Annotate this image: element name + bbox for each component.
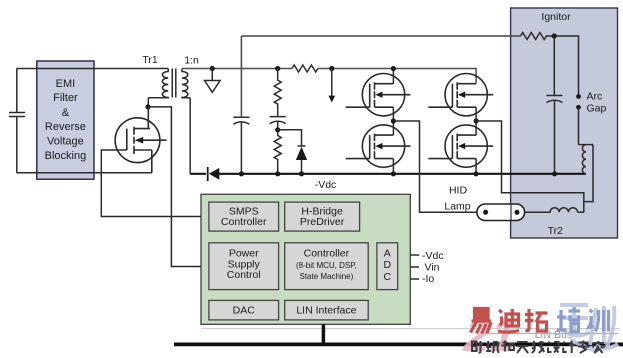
svg-text:Tr2: Tr2 xyxy=(548,225,564,237)
controller green block xyxy=(201,194,410,324)
svg-text:Blocking: Blocking xyxy=(45,150,87,162)
wire Tr1 secondary bottom down xyxy=(189,98,191,174)
transformer Tr2 secondary coil xyxy=(579,145,594,174)
svg-text:Lamp: Lamp xyxy=(444,201,470,213)
transformer Tr1 xyxy=(148,69,190,98)
watermark char Yi xyxy=(471,309,492,334)
wire ADC stubs xyxy=(410,255,419,279)
watermark small row dark characters xyxy=(472,341,605,354)
H-Bridge PreDriver block xyxy=(285,202,360,231)
node cap rail xyxy=(552,171,557,176)
svg-text:&: & xyxy=(62,107,70,119)
svg-text:Ignitor: Ignitor xyxy=(541,11,571,23)
capacitor input xyxy=(9,113,25,117)
SMPS Controller block xyxy=(209,202,279,231)
svg-text:Controller: Controller xyxy=(304,248,350,260)
watermark blue glyph echo xyxy=(560,305,618,352)
svg-text:-Vdc: -Vdc xyxy=(315,179,337,191)
watermark thin underline xyxy=(490,333,618,335)
svg-text:C: C xyxy=(384,271,392,283)
HID lamp xyxy=(444,184,524,220)
wire input bottom xyxy=(17,172,152,174)
mosfet Q3 top-right xyxy=(428,74,493,116)
watermark char Di xyxy=(498,309,519,332)
svg-text:DAC: DAC xyxy=(233,305,256,317)
wire Q1 gate to SMPS controller xyxy=(101,150,201,217)
svg-text:1:n: 1:n xyxy=(184,55,199,67)
wire autotransformer link xyxy=(584,145,593,202)
ground xyxy=(205,66,221,92)
current arrow xyxy=(328,66,335,103)
svg-text:(8-bit MCU, DSP,: (8-bit MCU, DSP, xyxy=(296,261,357,270)
mosfet Q4 bottom-left xyxy=(346,125,411,167)
LIN bus vertical xyxy=(322,324,326,344)
node divider bottom xyxy=(275,171,280,176)
svg-text:HID: HID xyxy=(449,184,468,196)
Ignitor block xyxy=(511,8,618,238)
wire ignitor top xyxy=(554,36,578,95)
svg-text:-Io: -Io xyxy=(422,273,434,285)
Controller (8-bit MCU, DSP, State Machine) block xyxy=(285,243,369,290)
arc gap xyxy=(576,91,606,145)
LIN bus line xyxy=(174,343,623,347)
wire top feed to ignitor xyxy=(241,36,520,116)
wire secondary top rail xyxy=(182,69,476,84)
resistor ignitor xyxy=(521,33,555,40)
svg-text:Gap: Gap xyxy=(587,103,607,115)
wire Tr1 primary bottom to drain junction xyxy=(147,98,149,107)
node divider top xyxy=(275,66,280,71)
wire input top xyxy=(17,68,169,70)
svg-text:Voltage: Voltage xyxy=(47,136,84,148)
Power Supply Control block xyxy=(209,243,279,290)
svg-text:Filter: Filter xyxy=(53,92,78,104)
svg-text:EMI: EMI xyxy=(56,78,76,90)
wire left node to lamp xyxy=(393,121,477,212)
resistor divider lower xyxy=(274,130,281,174)
svg-text:A: A xyxy=(384,248,391,260)
node ignitor top xyxy=(552,33,557,38)
svg-text:Arc: Arc xyxy=(587,91,603,103)
ADC block xyxy=(377,243,398,290)
svg-text:Control: Control xyxy=(227,269,261,281)
svg-text:State Machine): State Machine) xyxy=(299,272,353,281)
wire junction to power supply control xyxy=(148,107,201,267)
transformer Tr2 primary coil xyxy=(525,208,578,213)
watermark char Xun xyxy=(589,310,609,332)
thin rule xyxy=(201,328,620,330)
diode clamp xyxy=(278,130,308,177)
watermark char Tuo xyxy=(525,309,548,331)
wire input left vertical xyxy=(16,69,18,173)
diode series rail xyxy=(208,167,220,181)
node divider mid xyxy=(275,127,280,132)
watermark char Pei xyxy=(557,308,581,332)
mosfet Q1 xyxy=(115,107,167,173)
node drain junction xyxy=(145,104,150,109)
capacitor divider xyxy=(270,117,286,130)
resistor top rail xyxy=(292,65,318,72)
svg-text:Tr1: Tr1 xyxy=(142,54,158,66)
-Vdc bottom rail xyxy=(190,173,586,175)
wire H-bridge legs xyxy=(393,69,476,174)
resistor divider upper xyxy=(274,69,281,116)
node H-bridge xyxy=(391,66,479,176)
capacitor ignitor xyxy=(547,96,563,174)
svg-text:-Vdc: -Vdc xyxy=(422,250,444,262)
node rail dot xyxy=(239,171,244,176)
DAC block xyxy=(209,300,279,320)
LIN Interface block xyxy=(285,300,369,320)
svg-text:Reverse: Reverse xyxy=(45,121,86,133)
mosfet Q2 top-left xyxy=(346,74,411,116)
svg-text:Controller: Controller xyxy=(221,216,267,228)
wire right node to Tr2 primary xyxy=(476,121,584,212)
capacitor bus xyxy=(233,117,249,174)
svg-text:D: D xyxy=(384,259,392,271)
EMI Filter and Reverse Voltage Blocking block xyxy=(37,61,94,179)
svg-text:LIN Interface: LIN Interface xyxy=(296,305,356,317)
mosfet Q5 bottom-right xyxy=(428,125,493,167)
svg-text:PreDriver: PreDriver xyxy=(300,216,345,228)
svg-text:Vin: Vin xyxy=(425,262,440,274)
